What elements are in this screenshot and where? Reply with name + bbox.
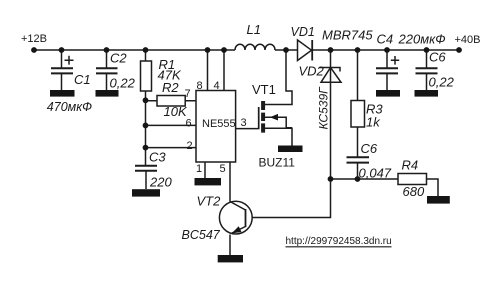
wire R2 leads <box>146 100 197 102</box>
node dot R1 bottom R2 <box>143 97 149 103</box>
svg-text:0,047: 0,047 <box>359 166 392 181</box>
capacitor C6 lower stem <box>357 163 359 179</box>
NE555 pin 1 wire <box>204 162 206 178</box>
svg-text:R4: R4 <box>402 158 419 173</box>
node dot feedback VD2 <box>328 176 334 182</box>
wire diode cathode to +40V terminal <box>313 49 460 51</box>
resistor R2 body <box>157 96 185 107</box>
svg-text:8: 8 <box>197 80 203 92</box>
capacitor C4 plus sign <box>391 56 399 65</box>
svg-text:+12В: +12В <box>21 33 47 45</box>
svg-text:C6: C6 <box>429 50 446 65</box>
capacitor C1 plates <box>51 68 73 73</box>
svg-text:C4: C4 <box>377 32 394 47</box>
transistor VT2 base bar <box>245 209 247 227</box>
svg-text:220мкФ: 220мкФ <box>398 32 446 47</box>
ground VT1 source <box>278 146 303 153</box>
capacitor C1 plus sign <box>65 56 74 65</box>
svg-text:3: 3 <box>241 117 247 129</box>
zener VD2 cathode bar <box>320 68 341 72</box>
NE555 pin 6 wire <box>146 124 197 126</box>
svg-text:2: 2 <box>187 140 193 152</box>
svg-text:NE555: NE555 <box>202 118 236 130</box>
svg-text:C3: C3 <box>149 150 166 165</box>
ground R4 <box>427 196 450 204</box>
capacitor C2 plates <box>96 68 118 73</box>
svg-text:470мкФ: 470мкФ <box>47 100 92 114</box>
transistor VT1 source wire <box>265 128 292 145</box>
svg-text:MBR745: MBR745 <box>322 28 373 43</box>
node dot pin2 <box>143 145 149 151</box>
svg-text:BC547: BC547 <box>182 228 221 242</box>
node dot R3 <box>355 47 361 53</box>
resistor R3 body <box>351 101 365 128</box>
node dot C4 <box>384 47 390 53</box>
svg-text:BUZ11: BUZ11 <box>259 156 296 170</box>
capacitor C3 plates <box>135 166 157 171</box>
capacitor C1 stem <box>61 50 63 90</box>
resistor R3 stem <box>357 50 359 157</box>
svg-text:VD2: VD2 <box>299 64 325 79</box>
svg-text:220: 220 <box>149 175 172 190</box>
node dot pin8 <box>205 47 211 53</box>
svg-text:VT1: VT1 <box>252 82 276 97</box>
capacitor C6 lower plates <box>347 157 370 162</box>
svg-text:7: 7 <box>185 88 191 100</box>
node dot pin6 <box>143 123 149 129</box>
capacitor C6 upper stem <box>426 50 428 90</box>
wire R4 to ground <box>427 179 439 196</box>
svg-text:10K: 10K <box>164 104 188 119</box>
NE555 pin 3 wire <box>236 128 258 130</box>
diode VD1 cathode bar <box>311 40 313 61</box>
ground C2 <box>96 90 119 97</box>
wire vertical bus R1 C3 <box>145 50 147 166</box>
transistor VT2 emitter arrowhead <box>232 226 242 233</box>
transistor VT2 collector diagonal <box>230 202 246 211</box>
wire feedback node to R4 <box>331 178 399 180</box>
NE555 pin 4 wire <box>223 50 225 91</box>
svg-text:1: 1 <box>196 163 202 175</box>
ground C4 <box>376 90 400 97</box>
diode VD1 triangle <box>298 40 312 61</box>
transistor VT2 circle <box>219 201 252 234</box>
capacitor C6 upper plates <box>416 68 438 73</box>
url underline <box>286 246 392 248</box>
capacitor C4 plates <box>376 68 398 73</box>
op IC NE555 box U1 <box>196 91 236 163</box>
svg-text:+40В: +40В <box>455 34 481 46</box>
wire top supply rail left segment <box>34 49 235 51</box>
wire coil to diode <box>275 49 298 51</box>
ground C1 <box>50 90 75 97</box>
zener VD2 stem <box>330 50 332 179</box>
svg-text:6: 6 <box>186 118 192 130</box>
capacitor C3 stem <box>145 171 147 189</box>
svg-text:1k: 1k <box>366 115 381 130</box>
ground C3 <box>132 189 160 196</box>
svg-text:VT2: VT2 <box>197 194 222 209</box>
transistor VT1 backgate arrow wire <box>265 117 292 128</box>
wire feedback to VT2 base <box>252 179 331 218</box>
node dot R1 top <box>143 47 149 53</box>
NE555 pin 8 wire <box>207 50 209 91</box>
transistor VT2 emitter diagonal <box>232 227 246 234</box>
resistor R4 body <box>398 174 427 185</box>
NE555 pin 2 wire <box>146 147 197 149</box>
svg-text:0,22: 0,22 <box>110 76 136 91</box>
node dot C2 <box>104 47 110 53</box>
node dot +12V terminal <box>31 47 37 53</box>
node dot C6 upper <box>424 47 430 53</box>
svg-text:0,22: 0,22 <box>429 75 455 90</box>
ground VT2 emitter <box>218 255 243 262</box>
svg-text:4: 4 <box>214 80 220 92</box>
capacitor C2 stem <box>106 50 108 90</box>
svg-text:VD1: VD1 <box>291 25 315 39</box>
svg-text:L1: L1 <box>247 22 261 37</box>
node dot feedback C6 <box>355 176 361 182</box>
svg-text:680: 680 <box>403 184 425 199</box>
transistor VT1 backgate arrowhead <box>270 114 278 121</box>
svg-text:R2: R2 <box>162 80 179 95</box>
zener VD2 triangle <box>321 68 341 83</box>
inductor L1 <box>235 44 275 50</box>
ground C6 upper <box>415 90 439 97</box>
node dot +40V terminal <box>456 47 462 53</box>
NE555 pin 5 wire <box>229 162 231 202</box>
svg-text:C1: C1 <box>74 72 91 87</box>
capacitor C4 stem <box>386 50 388 90</box>
node dot VD2 <box>328 47 334 53</box>
node dot VT1 drain <box>283 47 289 53</box>
transistor VT2 emitter wire <box>229 235 231 256</box>
svg-text:http://299792458.3dn.ru: http://299792458.3dn.ru <box>286 236 392 247</box>
ground NE555 pin1 <box>195 178 222 185</box>
node dot C1 <box>59 47 65 53</box>
svg-text:5: 5 <box>220 163 226 175</box>
svg-text:C6: C6 <box>361 141 378 156</box>
node dot pin4 <box>221 47 227 53</box>
svg-text:КС539Г: КС539Г <box>317 86 331 130</box>
transistor VT1 channel bars <box>261 101 265 133</box>
transistor VT1 drain wire <box>265 50 292 105</box>
resistor R1 body <box>141 61 152 91</box>
svg-text:C2: C2 <box>110 51 127 66</box>
transistor VT1 gate bar <box>258 107 260 129</box>
